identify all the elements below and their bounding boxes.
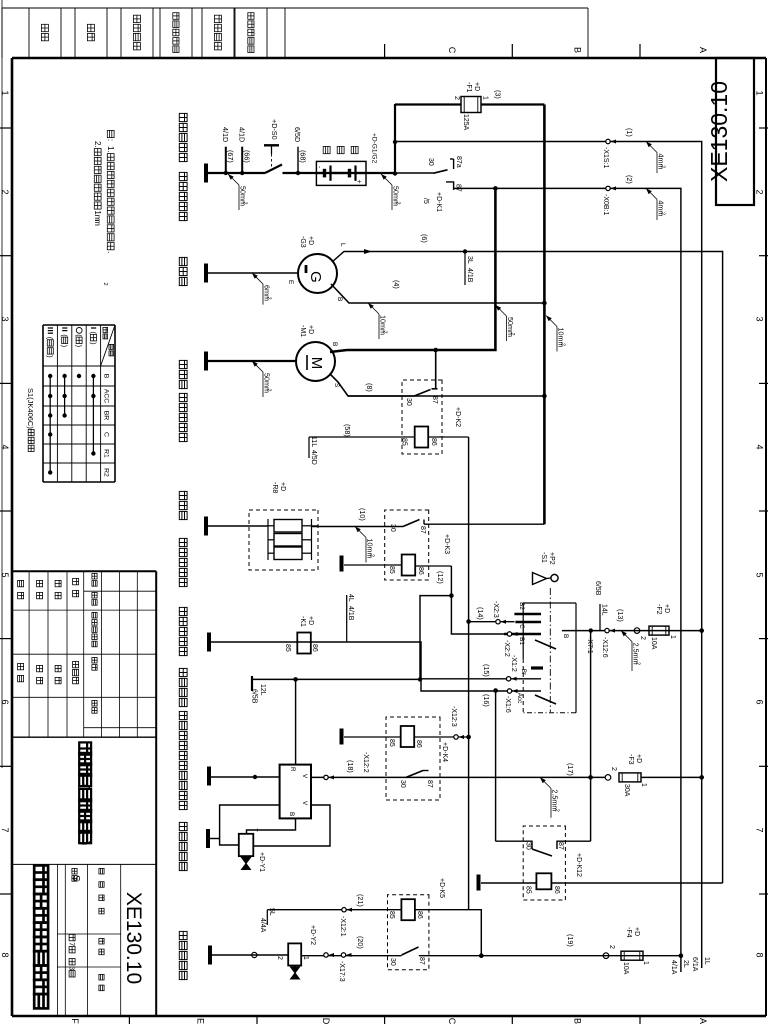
svg-text:5: 5: [755, 572, 765, 577]
svg-text:+D-K4: +D-K4: [441, 742, 448, 762]
solenoid Y1 box: [239, 834, 254, 856]
svg-text:E: E: [196, 1018, 206, 1024]
K3 87 tick: [423, 520, 425, 525]
K1 87 terminal: [446, 182, 454, 190]
svg-text:(58): (58): [343, 424, 352, 437]
gauge 4mm2 wire2: [646, 188, 652, 194]
svg-text:R: R: [289, 767, 296, 772]
glow plug rails: [311, 519, 313, 560]
svg-text:.: .: [93, 145, 102, 147]
svg-text:BR: BR: [103, 411, 110, 421]
svg-text:5: 5: [0, 572, 10, 577]
table row labels: [91, 327, 96, 329]
svg-text:G: G: [307, 271, 324, 283]
connector -X12:2 on wire 18: [324, 775, 328, 779]
svg-text:(14): (14): [476, 607, 485, 620]
svg-text::: :: [106, 139, 115, 141]
svg-text:+: +: [253, 828, 260, 832]
Y2 valve symbol: [291, 967, 300, 973]
key terminal stubs: [514, 613, 541, 615]
wire 14/12 ignition Y299: [468, 437, 470, 910]
svg-text:30: 30: [389, 958, 396, 966]
starter B cable 50mm2: [330, 188, 495, 352]
gauge 50mm2 batt cable: [495, 305, 501, 311]
battery G1/G2 box: [316, 161, 366, 185]
svg-text:3: 3: [68, 966, 77, 970]
notes text: [107, 130, 114, 137]
svg-text:1: 1: [640, 783, 647, 787]
K3 blade: [403, 520, 420, 527]
svg-text:86: 86: [553, 886, 560, 894]
ground bar branch1: [204, 164, 208, 183]
svg-text:2L: 2L: [682, 960, 689, 968]
svg-text:C: C: [518, 624, 525, 629]
K3 coil: [402, 555, 416, 576]
svg-text:87: 87: [557, 842, 564, 850]
wire Y272 Acc to K12-30: [495, 691, 497, 842]
battery cell plates: [329, 166, 331, 181]
svg-text:85: 85: [388, 911, 395, 919]
svg-text:-X17:3: -X17:3: [338, 961, 345, 982]
svg-text:Br: Br: [520, 669, 527, 675]
svg-text:7: 7: [0, 827, 10, 832]
svg-text:2: 2: [369, 554, 375, 557]
svg-text:+D: +D: [635, 754, 642, 763]
svg-text:(4): (4): [392, 280, 401, 289]
svg-text:1: 1: [302, 956, 309, 960]
connector -X17:3: [324, 953, 328, 957]
company name: [34, 865, 48, 879]
gauge 50mm2 starter: [252, 361, 258, 367]
drawing number box top-left (rotated 180): [716, 58, 754, 205]
connector -X12:3 on K4-86: [454, 735, 458, 739]
K2 dashed box: [402, 380, 442, 454]
svg-text:A: A: [698, 47, 708, 53]
svg-text:(13): (13): [616, 609, 625, 622]
stub 4/1D (66): [241, 147, 243, 173]
svg-text:30: 30: [389, 524, 396, 532]
svg-text:+D: +D: [307, 325, 314, 334]
ground bar Y1: [206, 829, 210, 848]
K4 coil bar: [340, 729, 344, 745]
K3 87 riser from Y223: [424, 523, 544, 525]
svg-text:10A: 10A: [650, 637, 657, 650]
ground bar generator: [204, 264, 208, 283]
svg-text:3: 3: [0, 316, 10, 321]
K12 dashed box: [523, 826, 565, 900]
svg-text:4L: 4L: [347, 594, 354, 602]
svg-text:87a: 87a: [455, 156, 462, 168]
stub 4/1D (67): [225, 147, 227, 173]
K3 30 lead to glow plugs: [312, 526, 403, 528]
zone ticks left: [639, 44, 641, 58]
svg-text:87: 87: [431, 396, 438, 404]
key common bar: [531, 666, 543, 669]
glow plug resistor 2: [274, 534, 302, 547]
cell labels: [99, 868, 104, 874]
12L end tick: [251, 676, 253, 691]
K1 coil: [297, 633, 311, 654]
stub 6/5D (68): [297, 147, 299, 173]
svg-text:D: D: [321, 1018, 331, 1024]
svg-text:2: 2: [276, 956, 283, 960]
master switch S0 blade: [265, 165, 282, 174]
svg-text:1: 1: [642, 961, 649, 965]
svg-text:B2: B2: [518, 602, 525, 610]
glow plug dashed box: [249, 510, 318, 570]
K2 blade: [414, 390, 430, 397]
svg-text:-X0B:1: -X0B:1: [602, 194, 609, 216]
svg-text:(19): (19): [566, 934, 575, 947]
svg-text:+D: +D: [307, 236, 314, 245]
K3 dashed box: [385, 510, 429, 580]
K1 blade: [433, 170, 448, 174]
K4 dashed box: [386, 717, 440, 800]
svg-text:R1: R1: [103, 449, 110, 458]
version: [72, 868, 77, 874]
svg-text:2: 2: [610, 767, 617, 771]
svg-text:85: 85: [388, 739, 395, 747]
fuse F4 10A: [621, 951, 643, 960]
wire Y373 horizontal: [394, 104, 396, 174]
svg-text:-X1S:1: -X1S:1: [602, 147, 609, 169]
generator G circle: [298, 254, 337, 293]
K12 coil bar: [477, 875, 481, 891]
svg-text:2: 2: [554, 809, 560, 812]
svg-text:86: 86: [311, 644, 318, 652]
signature row labels: [73, 578, 79, 584]
sheet count: [69, 934, 75, 940]
svg-text:+D-K2: +D-K2: [454, 407, 461, 427]
fuse F3 30A: [619, 773, 641, 782]
svg-text:): ): [60, 345, 69, 347]
svg-text:-K1: -K1: [299, 616, 306, 627]
solenoid Y1 valve symbol: [242, 858, 251, 864]
svg-text:1: 1: [482, 96, 489, 100]
key switch B feed wire to F2: [562, 630, 702, 632]
svg-text:86: 86: [417, 567, 424, 575]
K4 coil: [401, 726, 415, 747]
svg-text:6/5B: 6/5B: [251, 689, 258, 704]
svg-text:B: B: [336, 297, 343, 301]
svg-text:-M1: -M1: [299, 325, 306, 337]
wire 17 down to K4: [311, 776, 605, 778]
svg-text:B: B: [103, 374, 110, 379]
wire 12L: Br net: [252, 596, 451, 680]
branch name labels: [179, 113, 187, 121]
title block columns left part: [84, 590, 157, 592]
connector -X12:6: [605, 628, 609, 632]
svg-text:(20): (20): [356, 936, 365, 949]
ground bar module: [207, 767, 211, 786]
svg-text:-X12:6: -X12:6: [601, 637, 608, 658]
svg-text:+D: +D: [307, 616, 314, 625]
gauge 6mm2: [252, 273, 258, 279]
svg-text:8: 8: [755, 952, 765, 957]
F4 circle: [603, 953, 609, 959]
svg-text:(3): (3): [494, 90, 503, 99]
svg-text:2: 2: [660, 212, 666, 215]
K2 87 feed from starter cable: [435, 350, 437, 389]
svg-text:-F1: -F1: [465, 82, 472, 93]
svg-text:B: B: [572, 1018, 582, 1024]
K4 87 tick: [423, 770, 429, 772]
svg-text:85: 85: [401, 438, 408, 446]
svg-text:6/5D: 6/5D: [293, 127, 302, 142]
wire 1 X1S to 1L: [395, 142, 702, 969]
svg-text:.: .: [106, 251, 115, 253]
fuse F2 circle: [634, 628, 640, 634]
K1 contact 30 lead: [395, 172, 433, 174]
mechanical link dash-dot: [549, 588, 551, 712]
svg-text:XE130.10: XE130.10: [122, 892, 145, 984]
svg-text:2: 2: [453, 96, 460, 100]
svg-text:86: 86: [416, 911, 423, 919]
svg-text:+P2: +P2: [548, 552, 555, 565]
svg-text:A: A: [698, 1018, 708, 1024]
K3 coil bar: [340, 556, 344, 572]
svg-text:(17): (17): [566, 763, 575, 776]
K1 87a terminal: [453, 159, 455, 169]
svg-text:85: 85: [525, 886, 532, 894]
svg-text:3L: 3L: [466, 256, 473, 264]
gauge 2.5mm2 F2: [621, 631, 627, 637]
starter branch wire: [206, 360, 296, 362]
module V2 wire: [253, 805, 330, 846]
svg-text:2: 2: [639, 636, 646, 640]
module bottom pin wire: [220, 805, 280, 845]
svg-text:30: 30: [427, 158, 434, 166]
svg-text:1: 1: [0, 90, 10, 95]
svg-text:XE130.10: XE130.10: [706, 81, 732, 182]
svg-text:+D: +D: [663, 604, 670, 613]
svg-text:(67): (67): [226, 150, 235, 163]
svg-text:B: B: [288, 812, 295, 816]
svg-text:30: 30: [399, 780, 406, 788]
svg-text:2: 2: [382, 331, 388, 334]
svg-text:2: 2: [102, 283, 108, 286]
key switch box: [575, 603, 577, 713]
svg-text:12L: 12L: [259, 684, 266, 696]
wire branch1 lower: [206, 172, 265, 174]
F3 circle: [605, 775, 611, 781]
K5 coil 86 lead: [415, 910, 481, 955]
svg-text:2: 2: [266, 389, 272, 392]
wire 6 alternator L to Y45: [332, 252, 723, 884]
svg-text:86: 86: [430, 438, 437, 446]
wire 14 to key C: [469, 621, 515, 623]
svg-text:4/1D: 4/1D: [221, 127, 230, 142]
drawing title: [79, 742, 91, 754]
svg-text:4: 4: [755, 444, 765, 449]
svg-text:6: 6: [755, 699, 765, 704]
Y2 branch lower: [212, 954, 288, 956]
key Br stub: [420, 678, 541, 680]
svg-text:L: L: [339, 243, 346, 247]
svg-text:2: 2: [755, 189, 765, 194]
wire 4 alternator B: [331, 284, 544, 303]
svg-text:2: 2: [660, 165, 666, 168]
generator symbol mark: [305, 265, 308, 273]
svg-text:(8): (8): [365, 383, 374, 392]
fuse F1 125A: [461, 97, 481, 113]
svg-text:(10): (10): [358, 508, 367, 521]
ground bar Y2: [208, 946, 212, 965]
svg-text:-X7:1: -X7:1: [586, 637, 593, 654]
svg-text:-X12:1: -X12:1: [339, 916, 346, 937]
stub 11L 4/5D: [308, 437, 310, 458]
wire 12 key B1 to K3 coil: [451, 566, 504, 634]
svg-text:+D-Y2: +D-Y2: [309, 925, 316, 945]
connector -X0B:1: [606, 186, 610, 190]
svg-text:11L: 11L: [310, 436, 317, 447]
svg-text:+D: +D: [633, 927, 640, 936]
svg-text:C: C: [447, 1018, 457, 1024]
K2 contact wire 30: [348, 395, 414, 397]
K4 coil leads: [414, 736, 468, 738]
svg-text:(1): (1): [625, 128, 634, 137]
svg-text:-F4: -F4: [625, 927, 632, 938]
svg-text:-X2:3: -X2:3: [492, 601, 499, 618]
svg-text:-F2: -F2: [655, 604, 662, 615]
title block right part: [12, 863, 156, 865]
sheet frame: [765, 58, 767, 1016]
svg-text:6/1A: 6/1A: [691, 957, 698, 972]
svg-text:6: 6: [0, 699, 10, 704]
svg-text:1L: 1L: [703, 957, 710, 965]
key blades: [535, 640, 556, 649]
K12 coil leads: [551, 882, 722, 884]
K2 87 tick: [432, 388, 438, 390]
svg-text:-X1:6: -X1:6: [504, 696, 511, 713]
gauge 10mm2 on Y223: [546, 316, 552, 322]
svg-text:Acc: Acc: [516, 693, 523, 704]
svg-text:C: C: [103, 432, 110, 437]
direction arrow on L wire: [364, 249, 372, 254]
svg-text:5L: 5L: [268, 908, 275, 916]
svg-text:(66): (66): [243, 150, 252, 163]
svg-text:M: M: [308, 357, 325, 370]
svg-text:30: 30: [405, 398, 412, 406]
wire 16 Acc to K1 coil: [211, 642, 541, 691]
label 蓄电池 vertical: [351, 146, 358, 153]
svg-text:4/4A: 4/4A: [259, 918, 266, 933]
glow plug resistor 1: [274, 520, 302, 533]
master switch S0 fixed contact T: [264, 144, 279, 146]
module ground pin: [211, 776, 280, 778]
svg-text:+D: +D: [279, 482, 286, 491]
wire 3/4 battery + distribution Y223: [543, 105, 546, 525]
table header diagonal: [101, 325, 115, 366]
ground bar K1 coil: [207, 633, 211, 652]
svg-text:(68): (68): [299, 150, 308, 163]
svg-text:-X1:2: -X1:2: [510, 655, 517, 672]
stub 3L 4/1B: [463, 249, 467, 253]
K5 87 lead F4 riser: [419, 955, 681, 957]
key position table S1: [114, 325, 116, 482]
zone ticks top: [759, 127, 768, 129]
svg-text:87: 87: [418, 957, 425, 965]
svg-text:2: 2: [608, 945, 615, 949]
svg-text:E: E: [287, 280, 294, 285]
key symbol: [551, 574, 558, 581]
gauge 50mm2 battery out: [381, 174, 387, 180]
connector circle on Y2 branch: [252, 952, 257, 957]
svg-text:10A: 10A: [622, 962, 629, 975]
svg-text:F: F: [70, 1018, 80, 1024]
K4 blade: [406, 771, 423, 778]
svg-text:-S1: -S1: [540, 552, 547, 563]
svg-text:/5: /5: [422, 198, 429, 204]
svg-text:(6): (6): [420, 234, 429, 243]
svg-text:): ): [46, 355, 55, 357]
svg-text:85: 85: [284, 644, 291, 652]
svg-text:(21): (21): [356, 894, 365, 907]
K5 coil: [401, 899, 415, 920]
wire 17 F3 riser: [641, 776, 702, 778]
K5 box: [388, 895, 429, 970]
fuse F2 10A: [649, 626, 669, 635]
svg-text:2: 2: [560, 343, 566, 346]
svg-text:): ): [77, 841, 92, 845]
svg-text:): ): [89, 342, 98, 344]
svg-text:(16): (16): [482, 694, 491, 707]
gauge 2.5mm2 wire17: [540, 777, 546, 783]
svg-text:-X2:2: -X2:2: [503, 640, 510, 657]
svg-text:.: .: [106, 150, 115, 152]
glow branch to ground: [206, 525, 268, 527]
K12 coil: [536, 873, 551, 889]
svg-text:87: 87: [426, 780, 433, 788]
svg-text:C: C: [447, 47, 457, 54]
svg-text:4/1D: 4/1D: [238, 127, 247, 142]
svg-text:4/1B: 4/1B: [466, 268, 473, 283]
svg-text:2: 2: [395, 202, 401, 205]
svg-text:+D: +D: [473, 82, 480, 91]
left margin sheet edge: [2, 7, 588, 9]
svg-text:B1: B1: [518, 637, 525, 645]
svg-text:2: 2: [242, 202, 248, 205]
svg-text:B: B: [331, 342, 338, 346]
starter M circle: [296, 342, 335, 381]
K5 blade: [402, 947, 419, 955]
svg-text:30A: 30A: [623, 784, 630, 797]
battery wire segments: [356, 172, 367, 174]
svg-text:-X12:2: -X12:2: [362, 752, 369, 773]
svg-text:87: 87: [419, 526, 426, 534]
glow plug resistor 3: [274, 547, 302, 560]
svg-text:+D-G1/G2: +D-G1/G2: [371, 133, 378, 164]
wire Y177 key to K12: [590, 631, 592, 842]
zone ticks bottom: [0, 127, 12, 129]
glow branch top: [312, 525, 319, 527]
svg-text:7: 7: [68, 942, 77, 946]
ground bar glow: [204, 517, 208, 536]
K2 coil leads: [428, 436, 468, 438]
module box: [280, 765, 311, 819]
svg-text:): ): [75, 345, 84, 347]
svg-text:125A: 125A: [462, 114, 469, 131]
connector -X7:1 dot: [589, 628, 593, 632]
svg-text:+D-Y1: +D-Y1: [258, 852, 265, 872]
svg-text:2: 2: [0, 189, 10, 194]
svg-text:(2): (2): [625, 175, 634, 184]
starter S wire: [330, 374, 544, 396]
title block outline: [155, 571, 157, 1016]
revision header labels: [92, 573, 97, 579]
svg-text:2: 2: [635, 662, 641, 665]
svg-text:3: 3: [755, 316, 765, 321]
